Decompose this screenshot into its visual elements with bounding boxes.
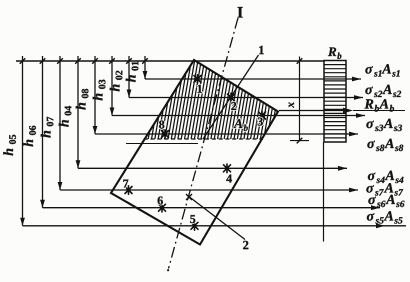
label 3 [258,118,263,126]
dimension line h_06 [40,56,46,208]
label h_01 [126,61,139,82]
label sigma_s4 A_s4 [368,171,404,183]
label h_02 [110,71,123,92]
label 8 [159,120,164,128]
resultant R_b A_b arrow [279,108,405,114]
wire: stress line from rebar 7 [60,188,358,193]
label h_07 [41,117,54,138]
leader line 2 [190,197,246,240]
stress block R_b [324,61,346,143]
rebar point 6 [159,203,166,212]
label 2 [243,241,248,249]
dimension line h_03 [109,56,115,116]
rebar point 4 [224,164,231,173]
rebar point 7 [125,186,132,194]
leader line 1 [203,55,259,139]
label I [238,7,243,17]
label x [289,102,294,108]
dimension line h_05 [20,56,26,226]
label h_06 [23,126,36,147]
section rectangle outline [111,60,278,245]
wire: stress line from rebar 1 [145,77,361,82]
label sigma_s5 A_s5 [367,211,403,223]
label 6 [158,197,163,205]
dimension line h_08 [92,56,98,134]
label R_b A_b [364,99,394,111]
stress block axis extension [323,142,325,242]
rebar point 5 [191,222,198,231]
label sigma_s6 A_s6 [368,195,404,207]
rebar point 2 [228,93,235,102]
label 1 [198,85,202,93]
label 1 [259,46,264,54]
x marker on axis [186,194,192,200]
label A_b [233,119,247,131]
dimension line h_04 [75,56,81,168]
label sigma_s1 A_s1 [365,64,399,76]
label h_03 [93,80,106,101]
label R_b [328,47,341,58]
dimension line h_07 [57,56,63,190]
wire: stress line from rebar 2 [129,95,363,100]
label 5 [190,215,195,223]
rebar point 1 [194,75,201,83]
wire: stress line from rebar 6 [43,205,381,210]
wire: stress line from rebar 3 [112,113,365,118]
thin line below hatch left [126,143,198,145]
rebar point 8 [162,130,169,138]
wire: stress line from rebar 4 [78,166,347,171]
label h_08 [76,89,89,110]
dimension line x [290,57,309,144]
label 7 [123,180,128,188]
wire: stress line from rebar 5 [23,223,407,228]
label 2 [231,102,236,110]
label sigma_s3 A_s3 [366,119,402,131]
label sigma_s2 A_s2 [365,85,401,97]
dimension line h_02 [126,56,132,98]
wire: stress line from rebar 8 [95,132,358,137]
dimension line h_01 [142,56,148,79]
label h_04 [59,106,72,127]
axis line I (dash-dot) [169,18,239,269]
label 4 [226,175,232,183]
rebar point 3 [259,111,266,120]
label h_05 [3,135,16,156]
top fiber reference line [16,60,324,62]
label sigma_s8 A_s8 [367,139,403,151]
neutral axis (dashed) [144,138,263,140]
label sigma_s7 A_s7 [366,183,403,195]
